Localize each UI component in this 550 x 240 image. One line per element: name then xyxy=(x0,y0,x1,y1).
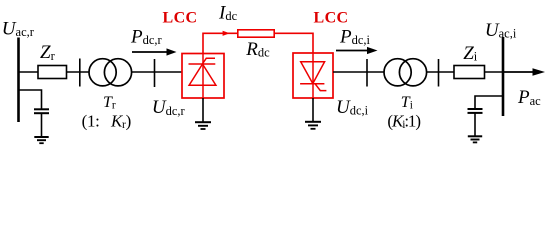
svg-text:LCC: LCC xyxy=(314,10,349,27)
LCC rectifier converter box xyxy=(182,54,224,99)
ground (rectifier dc return) xyxy=(202,98,204,122)
ground right xyxy=(468,135,482,137)
wire Tr to rectifier xyxy=(132,71,183,73)
filter capacitor branch (rectifier bus) xyxy=(19,90,42,109)
LCC inverter converter box xyxy=(293,53,333,98)
resistor Rdc xyxy=(238,30,274,37)
bus bar left (rectifier AC bus) xyxy=(17,38,20,123)
wire inverter to Ti xyxy=(333,71,385,73)
node tick between inverter and Ti xyxy=(366,59,368,87)
svg-text:LCC: LCC xyxy=(163,10,198,27)
transformer Tr xyxy=(89,59,116,86)
arrow P_dc,r xyxy=(132,51,168,53)
capacitor plates left xyxy=(34,108,49,110)
svg-text:Kr): Kr) xyxy=(110,111,131,131)
node tick between Tr and rectifier xyxy=(154,59,156,87)
thyristor valve (inverter) xyxy=(300,53,326,98)
wire Zi to bus xyxy=(485,71,504,73)
ground left xyxy=(34,136,48,138)
node tick between Ti and Zi xyxy=(438,59,440,87)
wire Zr to Tr xyxy=(67,71,90,73)
bus bar right (inverter AC bus) xyxy=(502,37,505,116)
transformer Ti xyxy=(384,59,411,86)
wire Ti to Zi xyxy=(427,71,455,73)
thyristor valve (rectifier) xyxy=(189,54,216,99)
svg-text:(1:: (1: xyxy=(82,111,100,130)
node tick between Zr and Tr xyxy=(79,59,81,87)
impedance Zi xyxy=(454,66,485,79)
ground (inverter dc return) xyxy=(312,98,314,122)
capacitor plates right xyxy=(468,108,483,110)
dc rail from Rdc to inverter xyxy=(274,33,313,53)
svg-text:(Ki:1): (Ki:1) xyxy=(387,111,420,131)
current arrow I_dc xyxy=(223,31,230,36)
dc rail from rectifier to Rdc xyxy=(203,33,238,53)
wire bus to Zr xyxy=(19,71,39,73)
wire capacitor to ground right xyxy=(474,113,476,136)
wire capacitor to ground left xyxy=(41,113,43,137)
arrow P_dc,i xyxy=(336,50,369,52)
filter capacitor branch (inverter bus) xyxy=(475,96,503,108)
arrow P_ac xyxy=(504,71,534,73)
impedance Zr xyxy=(38,66,67,79)
